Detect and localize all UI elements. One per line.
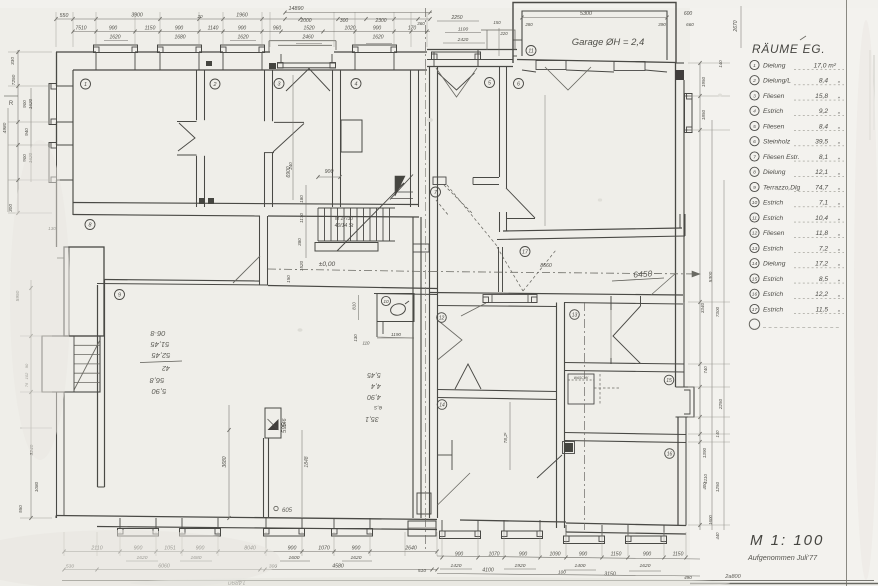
room 1 circle — [81, 79, 91, 89]
svg-text:14: 14 — [439, 402, 445, 408]
room 7 circle — [431, 187, 441, 197]
room 12 circle — [437, 313, 447, 323]
svg-text:1080: 1080 — [34, 481, 39, 492]
svg-text:2300: 2300 — [374, 18, 386, 24]
svg-text:1620: 1620 — [372, 35, 383, 41]
room 3 circle — [274, 79, 284, 89]
svg-text:900: 900 — [238, 26, 247, 32]
legend row 10 — [750, 198, 759, 207]
room 10 circle — [381, 296, 390, 305]
svg-text:Estrich: Estrich — [763, 108, 783, 115]
legend row 9 — [750, 182, 759, 191]
window sill room 5 — [432, 52, 481, 60]
porch steps left of garage — [481, 30, 515, 50]
svg-text:1150: 1150 — [145, 26, 156, 32]
svg-text:1620: 1620 — [351, 555, 362, 561]
svg-text:550: 550 — [60, 13, 69, 19]
svg-text:1020: 1020 — [344, 26, 355, 32]
wall below room 15 — [565, 433, 687, 435]
svg-text:3680: 3680 — [222, 456, 228, 467]
svg-text:42: 42 — [162, 364, 170, 371]
svg-text:8,5: 8,5 — [819, 276, 828, 283]
svg-text:Estrich: Estrich — [763, 306, 783, 313]
west outer wall — [72, 70, 74, 215]
wall rooms 12 - 13 column — [556, 303, 558, 529]
room 2 circle — [210, 79, 220, 89]
svg-text:„: „ — [837, 276, 840, 283]
svg-text:9: 9 — [118, 292, 121, 298]
door diagonal rooms 14-16 — [537, 455, 562, 478]
diagonal door room 6 corner — [651, 273, 676, 295]
svg-text:78,2¹: 78,2¹ — [503, 432, 509, 443]
svg-text:140: 140 — [715, 430, 720, 438]
svg-text:„: „ — [837, 184, 840, 191]
svg-text:8: 8 — [753, 170, 756, 176]
entrance threshold bar — [278, 63, 336, 68]
svg-text:1620: 1620 — [640, 563, 651, 569]
east wall of rooms 13-16 — [675, 302, 677, 387]
room 10 dims — [358, 295, 360, 320]
svg-text:14: 14 — [752, 261, 758, 267]
wall above room 9 / room10 strip — [268, 286, 437, 289]
svg-text:e,s: e,s — [374, 404, 382, 410]
spine foot porch below south wall — [408, 521, 436, 536]
svg-text:3150: 3150 — [604, 572, 616, 578]
svg-text:WASCHK: WASCHK — [574, 376, 590, 380]
north wall east section (rooms 5-6) — [427, 49, 517, 51]
window sills west wall — [49, 84, 57, 125]
svg-text:13: 13 — [572, 312, 578, 318]
svg-text:440: 440 — [715, 532, 720, 540]
svg-text:Dielung: Dielung — [763, 62, 786, 69]
svg-text:51,45: 51,45 — [150, 340, 170, 349]
svg-text:17,2: 17,2 — [815, 261, 828, 268]
svg-text:660: 660 — [686, 22, 694, 27]
svg-text:Estrich: Estrich — [763, 245, 783, 252]
svg-text:„: „ — [837, 230, 840, 237]
svg-text:17: 17 — [522, 249, 529, 255]
svg-text:„: „ — [837, 215, 840, 222]
svg-text:8,4: 8,4 — [819, 123, 828, 130]
bottom frame line — [62, 580, 874, 582]
svg-text:6: 6 — [753, 139, 756, 145]
svg-text:M 1: 100: M 1: 100 — [750, 532, 824, 549]
svg-text:5,90: 5,90 — [151, 387, 166, 396]
svg-text:900: 900 — [325, 169, 334, 175]
svg-text:600: 600 — [684, 11, 693, 17]
spine wall lower west line — [412, 217, 414, 518]
svg-text:1520: 1520 — [303, 26, 314, 32]
wc room 10 — [377, 294, 414, 322]
east wall room 16 — [677, 417, 679, 526]
svg-text:5300: 5300 — [708, 271, 714, 282]
interior dim x room6 — [544, 95, 546, 226]
threshold black marker room 9 — [265, 408, 281, 438]
svg-text:380: 380 — [297, 238, 302, 246]
east window sill upper — [685, 94, 693, 133]
spine notch lower — [417, 493, 431, 514]
dim 1920 room 14 — [509, 402, 511, 470]
svg-text:180: 180 — [299, 195, 304, 203]
svg-text:7300: 7300 — [715, 306, 720, 317]
svg-text:1850: 1850 — [701, 109, 706, 120]
legend row 4 — [750, 106, 759, 115]
winder steps room 4 corner — [390, 175, 413, 200]
svg-text:1070: 1070 — [318, 546, 330, 552]
svg-text:74,7: 74,7 — [815, 184, 828, 191]
svg-text:1620: 1620 — [109, 35, 120, 41]
svg-text:2420: 2420 — [457, 37, 469, 43]
svg-text:11: 11 — [528, 48, 534, 54]
east outer wall — [675, 63, 677, 302]
svg-text:7,1: 7,1 — [819, 200, 828, 207]
svg-text:„: „ — [837, 138, 840, 145]
stains and scan artifacts — [427, 118, 433, 122]
svg-text:10: 10 — [383, 299, 389, 305]
svg-text:220: 220 — [499, 31, 508, 36]
wall rooms 5-7 — [473, 177, 499, 179]
svg-text:11: 11 — [752, 215, 757, 221]
svg-text:1620: 1620 — [28, 98, 33, 109]
wall room8 - stair hall — [259, 216, 261, 285]
svg-text:7250: 7250 — [11, 74, 17, 85]
wall rooms 3-4 — [332, 70, 334, 207]
svg-text:7: 7 — [753, 154, 756, 160]
svg-text:12,1: 12,1 — [815, 169, 828, 176]
door triangle room12 upper — [438, 320, 463, 360]
page edge line right — [846, 0, 848, 586]
svg-text:900: 900 — [373, 26, 382, 32]
pencil 605 south wall — [274, 506, 278, 510]
door triangle room 12 — [455, 364, 481, 389]
room 15 circle — [664, 375, 674, 385]
svg-text:12: 12 — [439, 315, 445, 321]
wall below rooms 1-4 — [73, 203, 419, 205]
svg-text:8560: 8560 — [540, 263, 552, 269]
svg-text:2670: 2670 — [733, 20, 739, 32]
svg-text:RÄUME EG.: RÄUME EG. — [752, 42, 825, 56]
svg-text:„: „ — [837, 245, 840, 252]
dim 900 above stairs — [318, 176, 340, 178]
svg-text:2460: 2460 — [301, 35, 313, 41]
scan mottling — [0, 530, 280, 586]
south outer wall — [56, 516, 437, 520]
axis x through rooms 13/16 — [584, 302, 586, 530]
door threshold in room6 south wall — [483, 295, 537, 303]
svg-text:2a800: 2a800 — [724, 574, 741, 580]
door threshold wall 5-7 — [433, 177, 446, 185]
room 17 circle — [520, 247, 530, 257]
svg-text:900: 900 — [519, 552, 528, 558]
door opening gap rooms 1-2 — [195, 120, 206, 156]
legend row 15 — [750, 274, 759, 283]
wall rooms 1-2 — [196, 70, 198, 207]
partial wall in room 9 — [263, 438, 265, 517]
svg-text:14890: 14890 — [289, 6, 304, 12]
svg-text:11,5: 11,5 — [816, 306, 829, 313]
svg-text:1600: 1600 — [289, 555, 300, 561]
south windows sills — [118, 529, 159, 537]
svg-text:4: 4 — [355, 81, 358, 87]
east bay room 15 — [676, 387, 695, 417]
svg-text:„: „ — [837, 169, 840, 176]
stair landing bar — [315, 243, 378, 252]
room 13 circle — [570, 310, 580, 320]
legend row 1 — [750, 60, 759, 69]
svg-text:940: 940 — [24, 128, 29, 136]
svg-text:1250: 1250 — [715, 481, 720, 492]
door swing room 6 top — [545, 67, 591, 90]
svg-text:360: 360 — [417, 21, 425, 26]
svg-text:110: 110 — [363, 341, 371, 346]
hall west wall stub — [498, 247, 500, 292]
svg-text:2640: 2640 — [404, 546, 417, 552]
svg-text:Estrich: Estrich — [763, 291, 783, 298]
svg-text:6450: 6450 — [633, 268, 653, 279]
svg-text:20: 20 — [196, 14, 203, 19]
svg-text:„: „ — [837, 199, 840, 206]
svg-text:1680: 1680 — [174, 35, 185, 41]
south wall east wing segment — [460, 520, 566, 522]
wall below rooms 13/x — [565, 363, 685, 365]
svg-text:12,2: 12,2 — [815, 291, 828, 298]
vertical axis dash-dot — [425, 8, 427, 66]
svg-text:35,1: 35,1 — [365, 415, 379, 422]
door black marker room 16 — [564, 443, 573, 452]
svg-text:Steinholz: Steinholz — [763, 139, 791, 146]
svg-text:9: 9 — [753, 185, 756, 191]
door leaf room 7 to room 6 — [506, 218, 535, 220]
top dimension line row2 — [73, 31, 430, 33]
radiator mark room 3 — [269, 63, 276, 69]
left dim vertical lines — [17, 50, 19, 213]
double door chevron lobby — [613, 306, 641, 364]
staircase treads — [317, 208, 319, 241]
waschk closet — [568, 374, 594, 404]
garage outer walls — [513, 3, 676, 64]
svg-text:1100: 1100 — [458, 27, 469, 33]
svg-text:1600: 1600 — [708, 515, 713, 525]
svg-text:1848: 1848 — [304, 456, 310, 467]
west shaft below room 8 — [64, 247, 104, 336]
svg-text:„: „ — [837, 123, 840, 130]
entrance door swing room 3 — [286, 69, 330, 92]
left lower dims — [30, 280, 32, 518]
wall stubs rooms 13 - lobby — [610, 296, 612, 310]
svg-text:Garage ØH = 2,4: Garage ØH = 2,4 — [572, 37, 645, 48]
svg-text:1960: 1960 — [236, 13, 248, 19]
door swing dashes room 7 — [444, 185, 473, 214]
svg-text:1420: 1420 — [451, 563, 462, 569]
svg-text:100: 100 — [558, 570, 566, 575]
svg-text:900: 900 — [22, 100, 27, 108]
svg-text:Dielung/L: Dielung/L — [763, 78, 791, 85]
svg-text:130: 130 — [353, 334, 358, 342]
svg-text:7510: 7510 — [75, 26, 86, 32]
door swing room 14 south — [438, 473, 471, 505]
room 9 circle — [115, 290, 125, 300]
svg-text:1170: 1170 — [299, 213, 304, 223]
svg-text:140: 140 — [718, 60, 723, 68]
svg-text:52,45: 52,45 — [151, 351, 171, 360]
svg-text:1920: 1920 — [515, 563, 526, 569]
svg-text:15: 15 — [752, 276, 758, 282]
svg-text:8,4: 8,4 — [819, 78, 828, 85]
room 16 circle — [665, 449, 675, 459]
svg-text:2: 2 — [752, 78, 756, 84]
svg-text:Terrazzo,Dlg: Terrazzo,Dlg — [763, 184, 800, 191]
bottom dim extension verticals — [63, 532, 65, 556]
chimney rect room 4 — [341, 120, 362, 152]
stair side dims — [305, 185, 307, 258]
svg-text:4580: 4580 — [332, 564, 344, 570]
svg-text:2250: 2250 — [450, 15, 462, 21]
room 14 circle — [437, 400, 447, 410]
svg-text:10: 10 — [752, 200, 758, 206]
svg-text:±0,00: ±0,00 — [319, 261, 336, 268]
svg-text:Dielung: Dielung — [763, 261, 786, 268]
sheet edge faint line top right — [869, 50, 871, 140]
room 8 circle — [85, 220, 95, 230]
svg-text:1950: 1950 — [701, 76, 706, 87]
legend row 8 — [750, 167, 759, 176]
svg-text:5300: 5300 — [580, 11, 592, 17]
legend empty circle row — [749, 319, 759, 329]
svg-text:900: 900 — [352, 546, 361, 552]
svg-text:„: „ — [837, 93, 840, 100]
dim line 1848 right of partial wall — [301, 430, 303, 517]
svg-text:605: 605 — [282, 508, 293, 514]
svg-text:Estrich: Estrich — [763, 215, 783, 222]
room 14 inner door lines — [438, 454, 453, 456]
svg-text:„: „ — [837, 154, 840, 161]
right extension horizontals — [688, 62, 730, 64]
svg-text:7,2: 7,2 — [819, 245, 828, 252]
left extension horizontals lower — [20, 335, 52, 337]
hall dashed swings — [447, 185, 497, 246]
svg-text:„: „ — [837, 306, 840, 313]
right dim columns — [699, 63, 701, 530]
door swing room6 to room12 — [461, 303, 486, 316]
svg-text:3: 3 — [753, 93, 756, 99]
door diagonal room 8 — [233, 256, 260, 283]
svg-text:3: 3 — [278, 81, 281, 87]
svg-text:1070: 1070 — [488, 552, 499, 558]
svg-text:900: 900 — [288, 546, 297, 552]
legend row 6 — [750, 137, 759, 146]
svg-text:810: 810 — [352, 302, 357, 310]
svg-text:11,8: 11,8 — [816, 230, 829, 237]
svg-text:4980: 4980 — [2, 122, 8, 133]
svg-text:1150: 1150 — [673, 552, 684, 558]
svg-text:4,90: 4,90 — [367, 393, 381, 400]
legend row 3 — [750, 91, 759, 100]
svg-text:4: 4 — [753, 109, 756, 115]
svg-text:10,4: 10,4 — [815, 215, 828, 222]
room 4 circle — [351, 79, 361, 89]
room 6 south wall — [503, 228, 682, 231]
svg-text:330: 330 — [10, 57, 16, 65]
svg-text:510: 510 — [418, 568, 426, 574]
spine door marker — [413, 244, 429, 252]
hall south wall / rooms 12-13 north wall — [430, 293, 684, 296]
svg-text:1: 1 — [84, 82, 87, 88]
svg-text:Fliesen: Fliesen — [763, 123, 785, 130]
svg-text:6900: 6900 — [286, 166, 292, 177]
garage south wall with door notches — [517, 60, 676, 63]
svg-text:2: 2 — [213, 82, 217, 88]
svg-text:1090: 1090 — [549, 552, 560, 558]
svg-text:15,8: 15,8 — [815, 93, 828, 100]
svg-text:900: 900 — [455, 552, 464, 558]
svg-text:„: „ — [837, 108, 840, 115]
svg-text:R: R — [9, 101, 14, 107]
svg-text:4,4: 4,4 — [371, 382, 381, 389]
interior dim 6900 rotated — [292, 75, 294, 200]
svg-text:17: 17 — [752, 307, 758, 313]
svg-text:960: 960 — [273, 26, 282, 32]
top dim extension verticals — [55, 12, 57, 47]
svg-text:Aufgenommen Juli’77: Aufgenommen Juli’77 — [747, 553, 818, 562]
svg-text:150: 150 — [493, 20, 501, 25]
legend row 16 — [750, 289, 759, 298]
long dashed axis line with arrow — [268, 269, 430, 272]
window swing room 5 — [438, 73, 475, 90]
spine east wall full — [429, 67, 431, 519]
svg-text:06·8: 06·8 — [150, 329, 166, 338]
window sills north wall — [94, 45, 138, 53]
svg-text:Estrich: Estrich — [763, 200, 783, 207]
legend row 12 — [750, 228, 759, 237]
room 8 south wall — [104, 280, 260, 282]
west wall lower part — [56, 218, 58, 247]
svg-text:2000: 2000 — [299, 18, 311, 24]
svg-text:300: 300 — [340, 18, 349, 24]
svg-text:1190: 1190 — [391, 332, 401, 337]
bottom dim line row1 east — [437, 556, 700, 559]
svg-text:3340: 3340 — [700, 302, 705, 313]
external stair west — [42, 336, 100, 392]
door leaf rooms 2-3 into room 3 — [274, 121, 304, 123]
bottom dim line row3 east — [437, 574, 700, 577]
radiator mark room 2 — [206, 61, 212, 66]
svg-text:Dielung: Dielung — [763, 169, 786, 176]
entrance porch top — [269, 40, 336, 42]
svg-text:900: 900 — [579, 552, 588, 558]
svg-text:3900: 3900 — [131, 13, 143, 19]
toilet — [389, 302, 406, 316]
svg-text:490: 490 — [684, 575, 692, 580]
svg-text:1150: 1150 — [611, 552, 622, 558]
wall rooms 2-3 — [264, 70, 266, 207]
svg-text:9,2: 9,2 — [819, 108, 828, 115]
svg-text:1620: 1620 — [237, 35, 248, 41]
door opening gap rooms 2-3 — [263, 121, 274, 152]
wall rooms 5/7 - 6 — [499, 67, 501, 178]
legend row 17 — [750, 304, 759, 313]
stair direction diagonal — [337, 183, 404, 251]
bottom dim line row3 west — [64, 569, 437, 571]
svg-text:280: 280 — [524, 22, 533, 27]
svg-text:Fliesen Estr.: Fliesen Estr. — [763, 154, 800, 161]
legend row 13 — [750, 243, 759, 252]
svg-text:595: 595 — [282, 422, 288, 433]
svg-text:8: 8 — [89, 222, 92, 228]
svg-text:740: 740 — [703, 366, 708, 374]
legend row 5 — [750, 121, 759, 130]
legend row 2 — [750, 76, 759, 85]
svg-text:16: 16 — [667, 451, 673, 457]
